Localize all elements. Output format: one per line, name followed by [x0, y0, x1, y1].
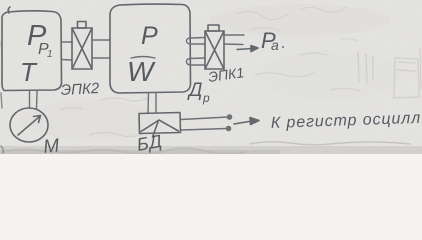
duct: valve EPK1 outlet — [224, 35, 244, 45]
label Dp (differential pressure tap) — [187, 80, 210, 105]
svg-text:БД: БД — [135, 131, 164, 154]
label Pa (atmosphere) — [261, 28, 284, 53]
faint top-right smudges — [236, 7, 358, 41]
sensor BD (differential pressure sensor) — [139, 113, 181, 138]
paper grain — [0, 0, 1, 1]
svg-text:а: а — [271, 37, 279, 53]
duct: center box right to valve EPK1 (upper stub) — [186, 38, 205, 45]
ghost bleed-through table lines (right side) — [358, 48, 421, 98]
svg-text:P: P — [141, 22, 158, 50]
wire: BD output upper — [181, 115, 232, 120]
wire: BD output lower — [181, 126, 231, 130]
box: left chamber (Pp1, T) — [2, 7, 62, 91]
paper background — [0, 0, 422, 154]
label Pp1 (supply pressure) — [27, 20, 53, 60]
svg-text:W: W — [127, 56, 156, 87]
svg-text:ЭПК2: ЭПК2 — [60, 80, 100, 99]
svg-text:Д: Д — [187, 80, 202, 101]
duct: valve EPK2 to center box — [92, 40, 110, 58]
pipe: center box down to sensor BD — [148, 93, 156, 113]
box: measuring chamber (P, W) — [110, 4, 191, 93]
mid-page smudges — [60, 53, 360, 137]
duct: center box right to valve EPK1 (lower stub) — [186, 58, 205, 65]
left edge dark marks — [1, 42, 2, 55]
arrow to recorder — [234, 118, 259, 125]
duct: left box to valve EPK2 — [61, 42, 72, 60]
gauge M (manometer) — [10, 108, 48, 142]
bottom scan band with illegible writing — [0, 142, 422, 154]
label W — [127, 56, 156, 87]
arrow to Pa — [237, 46, 258, 52]
svg-text:р: р — [202, 91, 210, 105]
valve EPK2 (solenoid valve) — [72, 22, 92, 70]
valve EPK1 (solenoid valve) — [205, 25, 224, 69]
pipe: left box down to gauge M — [30, 91, 38, 109]
svg-text:T: T — [20, 57, 38, 87]
svg-text:1: 1 — [47, 49, 53, 60]
svg-text:М: М — [42, 135, 60, 154]
